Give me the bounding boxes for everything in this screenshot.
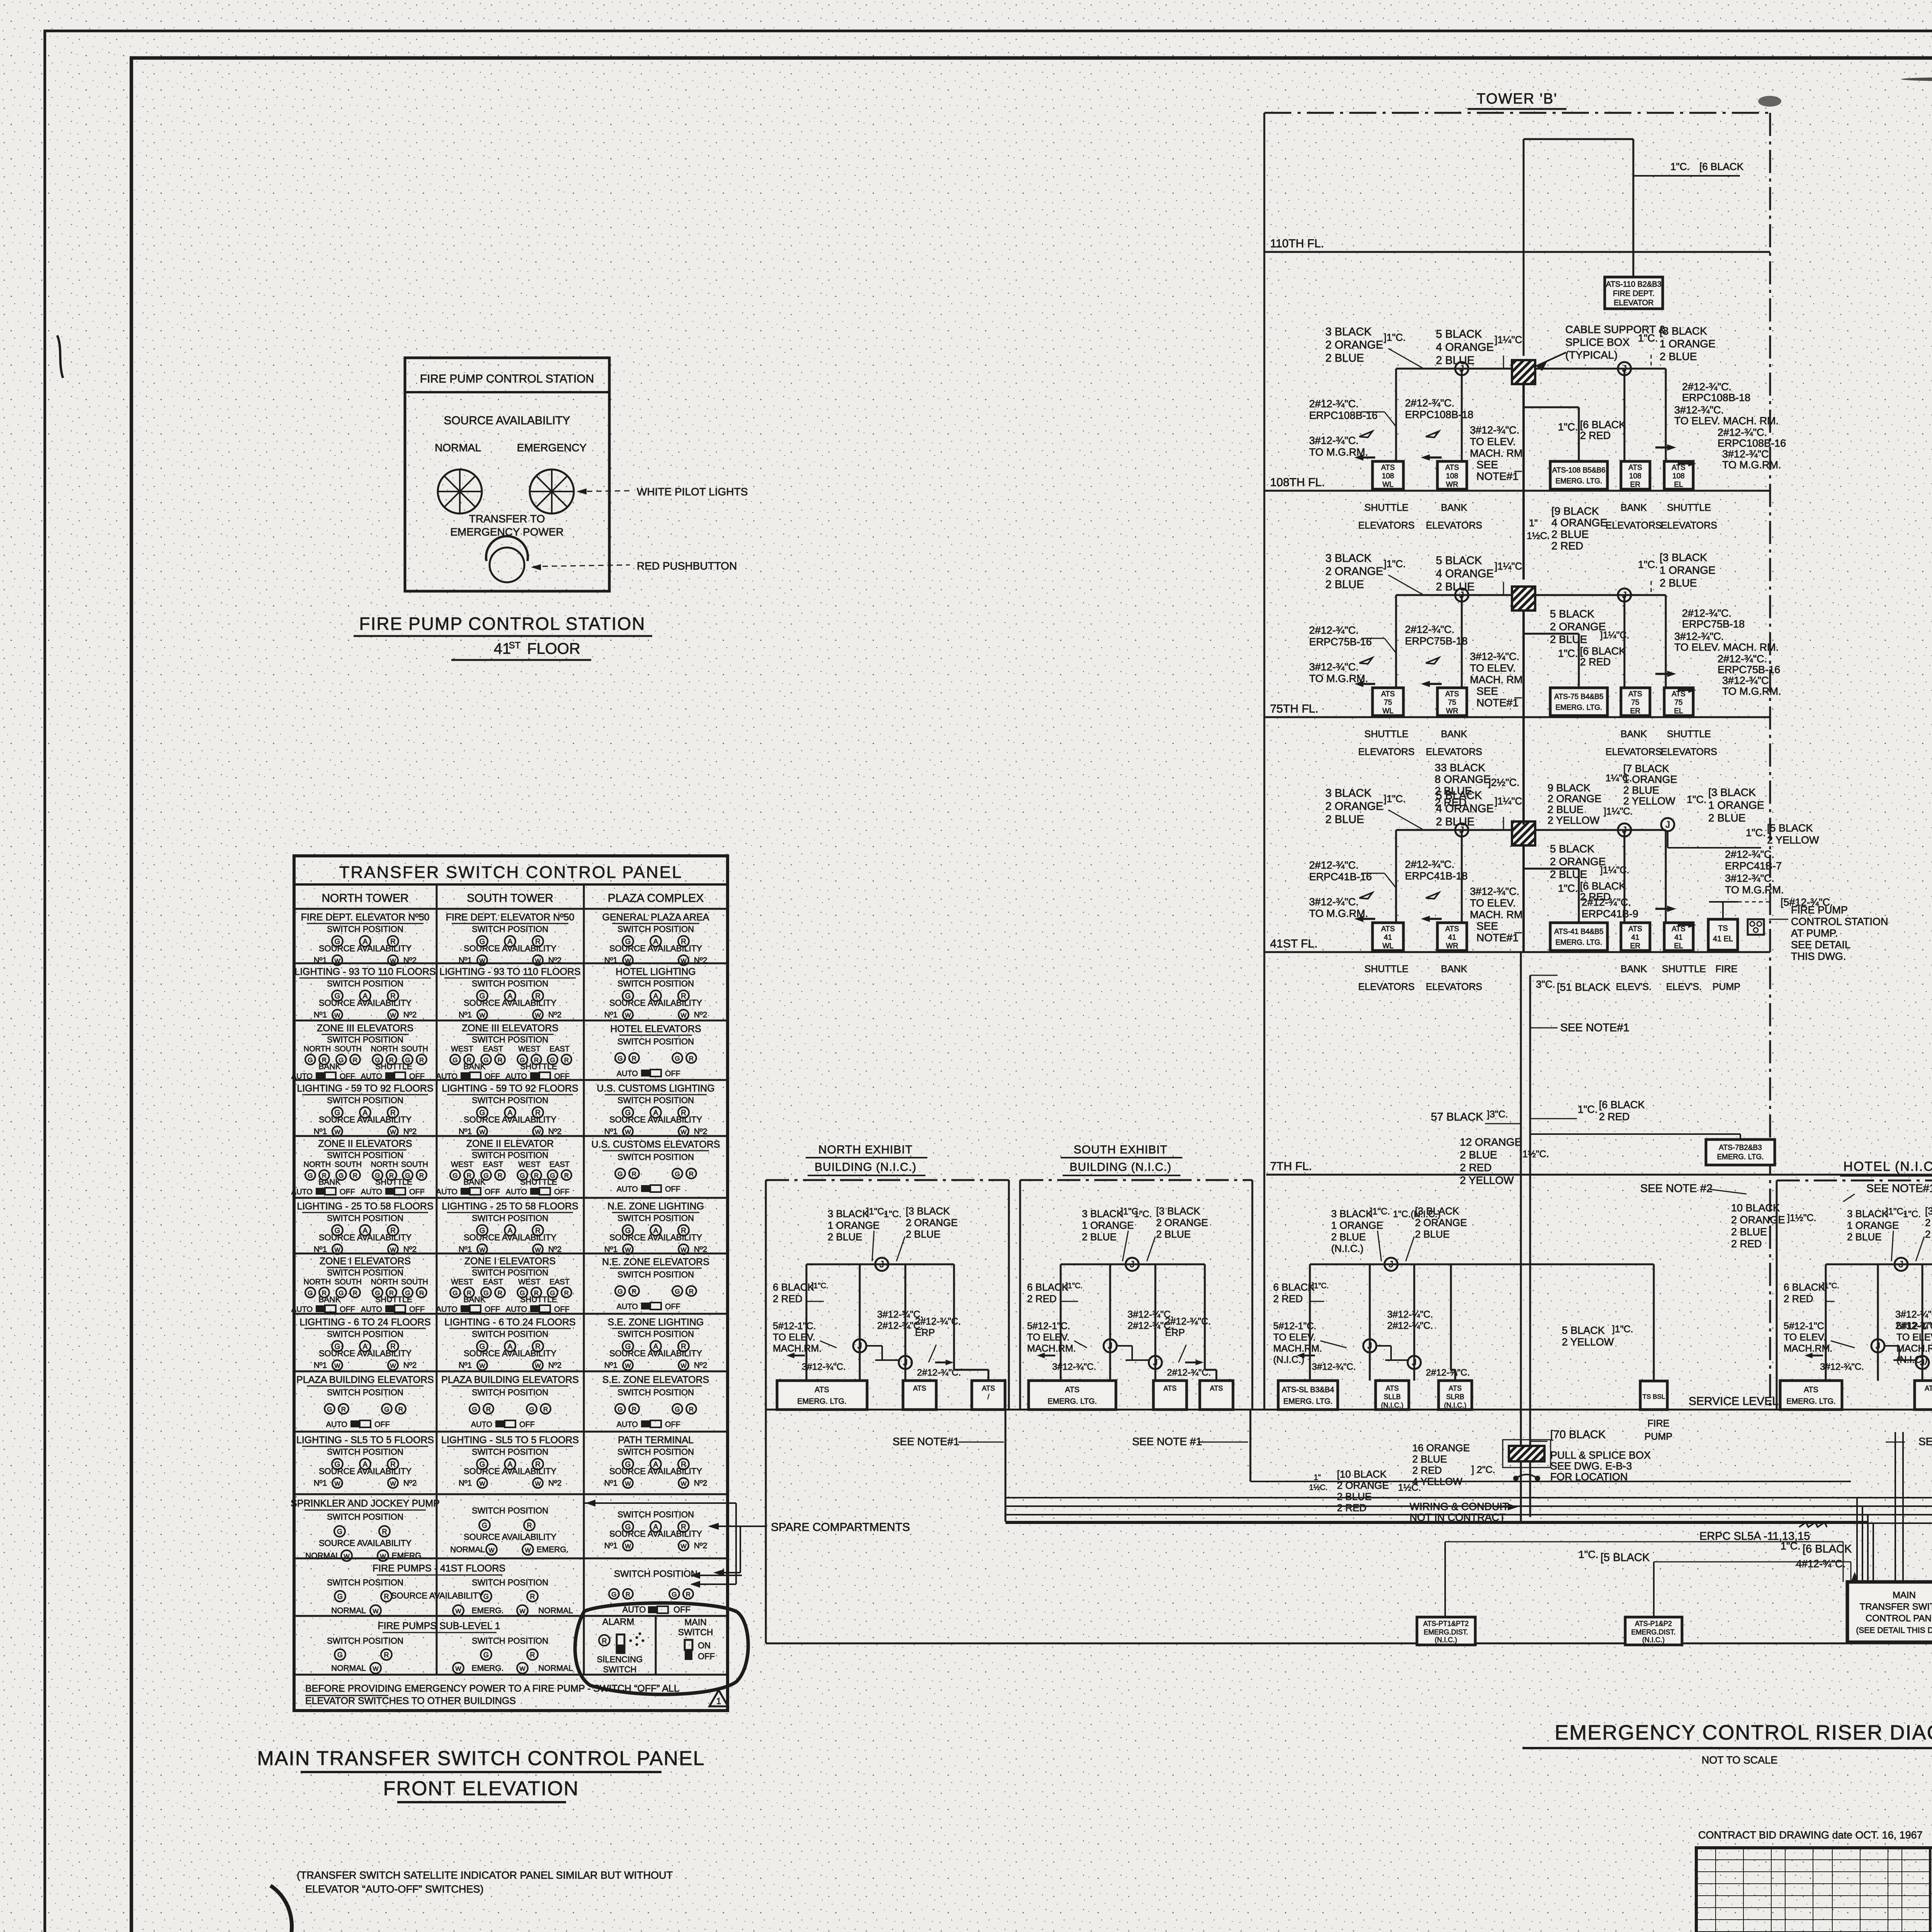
svg-text:SWITCH POSITION: SWITCH POSITION [617, 1510, 694, 1519]
svg-text:5 BLACK: 5 BLACK [1550, 843, 1594, 855]
svg-text:G: G [472, 1406, 477, 1413]
svg-text:R: R [689, 1288, 694, 1295]
svg-text:CONTRACT BID DRAWING: CONTRACT BID DRAWING date OCT. 16, 1967 [1698, 1829, 1923, 1841]
svg-text:ERPC108B-16: ERPC108B-16 [1718, 437, 1786, 449]
svg-text:NOTE#1: NOTE#1 [1476, 697, 1519, 709]
svg-text:Nº2: Nº2 [403, 1127, 417, 1136]
svg-text:W: W [535, 1363, 541, 1369]
svg-text:SOURCE AVAILABILITY: SOURCE AVAILABILITY [609, 1529, 702, 1539]
svg-text:[5 BLACK: [5 BLACK [1600, 1551, 1650, 1564]
svg-text:AUTO: AUTO [361, 1305, 382, 1314]
svg-text:SOURCE AVAILABILITY: SOURCE AVAILABILITY [609, 1349, 702, 1358]
wire drop to box [1395, 830, 1397, 923]
svg-text:2 BLUE: 2 BLUE [1412, 1453, 1447, 1465]
svg-text:G: G [675, 1406, 680, 1413]
leader red pushbutton [533, 565, 630, 566]
svg-text:FLOOR: FLOOR [527, 640, 580, 657]
svg-text:Nº2: Nº2 [548, 1361, 562, 1370]
svg-text:[10 BLACK: [10 BLACK [1337, 1468, 1387, 1480]
svg-text:ATS-P1&P2: ATS-P1&P2 [1635, 1620, 1672, 1628]
svg-text:G: G [452, 1056, 457, 1064]
svg-text:LIGHTING - 6 TO 24 FLOORS: LIGHTING - 6 TO 24 FLOORS [444, 1317, 575, 1328]
svg-text:R: R [686, 1591, 690, 1598]
svg-text:EMERG. LTG.: EMERG. LTG. [1283, 1397, 1332, 1406]
svg-text:ATS: ATS [1628, 690, 1642, 698]
svg-text:MACH.RM.: MACH.RM. [773, 1343, 821, 1354]
svg-text:G: G [482, 1522, 487, 1529]
svg-text:3#12-¾"C.: 3#12-¾"C. [1387, 1309, 1433, 1320]
svg-text:[3 BLACK: [3 BLACK [1660, 325, 1707, 337]
svg-text:LIGHTING - 25 TO 58 FLOORS: LIGHTING - 25 TO 58 FLOORS [442, 1201, 578, 1212]
svg-text:3 BLACK: 3 BLACK [1331, 1208, 1373, 1219]
junction J top [1895, 1258, 1908, 1271]
svg-text:ZONE II ELEVATORS: ZONE II ELEVATORS [318, 1138, 412, 1149]
svg-text:Nº2: Nº2 [694, 1010, 707, 1019]
svg-text:G: G [529, 1406, 534, 1413]
svg-text:NORTH: NORTH [304, 1045, 331, 1053]
svg-text:]1"C.: ]1"C. [1312, 1282, 1329, 1290]
svg-text:[6 BLACK: [6 BLACK [1803, 1543, 1852, 1555]
svg-text:]2½"C.: ]2½"C. [1488, 777, 1520, 788]
svg-text:W: W [680, 958, 687, 964]
svg-text:AUTO: AUTO [471, 1420, 492, 1429]
svg-text:W: W [479, 1129, 485, 1136]
svg-text:ERPC41B-9: ERPC41B-9 [1582, 908, 1638, 920]
cross links [1884, 1345, 1899, 1347]
svg-text:EMERG.: EMERG. [472, 1606, 504, 1615]
svg-text:TRANSFER SWITCH: TRANSFER SWITCH [1860, 1602, 1932, 1612]
central riser pair into panel [1895, 1432, 1896, 1582]
svg-text:W: W [334, 1247, 340, 1253]
svg-text:NORTH: NORTH [371, 1160, 398, 1169]
svg-text:W: W [625, 1543, 631, 1550]
sub level 5 line [766, 1643, 1932, 1645]
svg-text:R: R [341, 1406, 346, 1413]
svg-text:41: 41 [1631, 934, 1639, 942]
svg-text:ELEVATORS: ELEVATORS [1358, 747, 1415, 757]
svg-text:Nº2: Nº2 [403, 1361, 417, 1370]
svg-text:AT PUMP.: AT PUMP. [1791, 927, 1838, 939]
svg-text:R: R [384, 1651, 389, 1659]
feeder arrows [1354, 681, 1375, 687]
svg-text:41: 41 [1384, 934, 1392, 942]
svg-text:SWITCH POSITION: SWITCH POSITION [617, 979, 694, 988]
inner drop wires [1825, 1264, 1827, 1381]
ATS box ATS-41 B4&B5 41 [1550, 923, 1607, 951]
svg-text:10 BLACK: 10 BLACK [1731, 1202, 1780, 1214]
J mid left [1871, 1339, 1884, 1352]
svg-text:R: R [564, 1289, 569, 1297]
svg-text:3#12-¾"C.: 3#12-¾"C. [1312, 1362, 1356, 1372]
svg-text:2 RED: 2 RED [1599, 1111, 1630, 1122]
riser continues [1522, 384, 1525, 491]
svg-text:W: W [680, 1481, 687, 1487]
svg-text:SWITCH: SWITCH [603, 1665, 637, 1674]
emerg ltg feeder [1524, 633, 1579, 635]
cross links [1376, 1345, 1391, 1347]
title block outer [1696, 1848, 1932, 1932]
svg-text:EMERG.: EMERG. [392, 1551, 424, 1560]
svg-text:SHUTTLE: SHUTTLE [1662, 964, 1706, 975]
svg-text:2#12-¾"C.: 2#12-¾"C. [1582, 896, 1631, 908]
svg-text:OFF: OFF [554, 1305, 570, 1314]
svg-text:SEE: SEE [1476, 459, 1498, 471]
svg-text:AUTO: AUTO [291, 1072, 313, 1081]
svg-text:SOURCE AVAILABILITY: SOURCE AVAILABILITY [609, 944, 702, 953]
svg-text:ZONE III ELEVATORS: ZONE III ELEVATORS [317, 1023, 413, 1034]
svg-text:FIRE PUMP: FIRE PUMP [1791, 904, 1848, 916]
svg-text:SWITCH POSITION: SWITCH POSITION [472, 1095, 548, 1105]
svg-text:R: R [602, 1637, 607, 1645]
svg-text:SOURCE AVAILABILITY: SOURCE AVAILABILITY [609, 1466, 702, 1476]
leader arrows from right into sprinkler cells [584, 1502, 736, 1504]
svg-text:RED PUSHBUTTON: RED PUSHBUTTON [637, 560, 737, 572]
svg-text:Nº2: Nº2 [403, 956, 417, 965]
svg-text:W: W [390, 1012, 396, 1019]
svg-text:2#12-¾"C.: 2#12-¾"C. [1682, 381, 1731, 393]
svg-text:MAIN: MAIN [684, 1617, 707, 1627]
spare compartments leader to fire pumps row [740, 1526, 741, 1573]
svg-text:3#12-¾"C.: 3#12-¾"C. [1674, 404, 1724, 416]
svg-text:EMERGENCY: EMERGENCY [517, 442, 587, 454]
svg-text:J: J [1665, 820, 1670, 830]
feeder arrows [1354, 916, 1375, 922]
svg-text:LIGHTING - SL5 TO 5 FLOORS: LIGHTING - SL5 TO 5 FLOORS [296, 1435, 434, 1446]
svg-text:SWITCH POSITION: SWITCH POSITION [472, 1506, 548, 1515]
svg-text:SWITCH POSITION: SWITCH POSITION [614, 1569, 697, 1579]
svg-text:AUTO: AUTO [436, 1188, 457, 1196]
svg-text:EAST: EAST [483, 1278, 503, 1286]
svg-text:[70 BLACK: [70 BLACK [1550, 1429, 1606, 1441]
svg-text:1"C.: 1"C. [1670, 161, 1690, 172]
svg-text:2 BLUE: 2 BLUE [1325, 352, 1364, 364]
svg-text:SEE NOTE#1: SEE NOTE#1 [1866, 1182, 1932, 1195]
svg-text:WR: WR [1446, 481, 1458, 489]
svg-text:SOURCE AVAILABILITY: SOURCE AVAILABILITY [391, 1591, 484, 1600]
svg-text:MAIN: MAIN [1893, 1590, 1916, 1600]
svg-text:ST: ST [509, 640, 521, 651]
svg-text:WR: WR [1446, 707, 1458, 715]
junction J top [1384, 1258, 1398, 1271]
svg-text:[6 BLACK: [6 BLACK [1599, 1099, 1645, 1111]
svg-text:SWITCH POSITION: SWITCH POSITION [472, 1636, 548, 1646]
cross links [866, 1345, 882, 1347]
svg-text:Nº2: Nº2 [403, 1010, 417, 1019]
pilot light normal (crossed circle) [438, 469, 482, 514]
svg-text:SWITCH POSITION: SWITCH POSITION [472, 924, 548, 934]
svg-text:33 BLACK: 33 BLACK [1435, 762, 1485, 774]
svg-text:SHUTTLE: SHUTTLE [520, 1062, 557, 1071]
svg-text:]3"C.: ]3"C. [1487, 1109, 1508, 1120]
svg-text:WEST: WEST [518, 1045, 541, 1053]
svg-text:AUTO: AUTO [506, 1072, 527, 1081]
svg-text:108: 108 [1382, 472, 1394, 480]
svg-text:OFF: OFF [698, 1651, 715, 1661]
svg-text:ELEVATORS: ELEVATORS [1661, 520, 1717, 531]
svg-text:5#12-1"C.: 5#12-1"C. [1896, 1321, 1932, 1332]
ATS box mid [1915, 1381, 1932, 1410]
leader arrow into switch position [692, 1575, 742, 1576]
svg-text:ATS: ATS [1445, 464, 1459, 472]
svg-text:2 BLUE: 2 BLUE [1436, 581, 1475, 593]
svg-text:SHUTTLE: SHUTTLE [375, 1295, 412, 1304]
svg-text:2 RED: 2 RED [1435, 796, 1466, 808]
svg-text:1: 1 [716, 1696, 721, 1706]
svg-text:2 BLUE: 2 BLUE [1460, 1149, 1497, 1161]
svg-text:3#12-¾"C.: 3#12-¾"C. [1895, 1309, 1932, 1320]
svg-text:2 RED: 2 RED [1784, 1293, 1813, 1304]
svg-text:W: W [479, 1012, 485, 1019]
svg-text:]1"C.: ]1"C. [1822, 1282, 1839, 1290]
svg-text:G: G [483, 1593, 489, 1600]
svg-text:5#12-1"C.: 5#12-1"C. [1027, 1321, 1070, 1332]
svg-text:G: G [617, 1055, 622, 1062]
svg-text:3#12-¾"C.: 3#12-¾"C. [1820, 1362, 1864, 1372]
svg-text:TO M.G.RM.: TO M.G.RM. [1725, 884, 1784, 896]
svg-text:5 BLACK: 5 BLACK [1562, 1325, 1605, 1336]
svg-text:ERP: ERP [1165, 1327, 1185, 1338]
svg-text:75: 75 [1674, 699, 1682, 707]
svg-text:6 BLACK: 6 BLACK [1784, 1281, 1825, 1293]
ATS box WL 108 [1372, 461, 1403, 489]
svg-text:75: 75 [1631, 699, 1639, 707]
svg-text:R: R [384, 1593, 389, 1600]
svg-text:1½C.: 1½C. [1527, 531, 1550, 541]
svg-text:PLAZA BUILDING ELEVATORS: PLAZA BUILDING ELEVATORS [441, 1374, 579, 1385]
svg-text:SWITCH POSITION: SWITCH POSITION [617, 924, 694, 934]
feeder arrows [1354, 454, 1375, 461]
svg-text:1"C.: 1"C. [1638, 332, 1658, 344]
svg-text:TO ELEV.: TO ELEV. [1470, 436, 1516, 447]
svg-text:W: W [680, 1363, 687, 1369]
svg-text:BANK: BANK [463, 1295, 485, 1304]
svg-text:2 BLUE: 2 BLUE [1156, 1228, 1191, 1240]
svg-text:ATS: ATS [1672, 925, 1685, 933]
svg-text:Nº1: Nº1 [459, 1127, 472, 1136]
svg-text:2 RED: 2 RED [773, 1293, 803, 1304]
svg-text:]1½"C.: ]1½"C. [1787, 1213, 1816, 1223]
wire drop to box [1395, 369, 1397, 461]
svg-text:W: W [344, 1553, 350, 1560]
ATS box EL 108 [1664, 461, 1693, 489]
svg-text:R: R [419, 1172, 424, 1179]
svg-text:3 BLACK: 3 BLACK [828, 1208, 869, 1219]
svg-text:]1"C.: ]1"C. [811, 1282, 828, 1290]
svg-text:NOT TO SCALE: NOT TO SCALE [1702, 1754, 1778, 1766]
svg-text:Nº1: Nº1 [604, 1479, 618, 1488]
svg-text:]1¼"C.: ]1¼"C. [1600, 865, 1629, 876]
svg-text:SEE DWG. E-B-3: SEE DWG. E-B-3 [1550, 1460, 1632, 1472]
alarm / main switch cells [655, 1616, 657, 1675]
wire TS box to J [1722, 902, 1724, 919]
svg-text:BANK: BANK [463, 1062, 485, 1071]
svg-text:2 BLUE: 2 BLUE [1660, 350, 1697, 362]
svg-text:J: J [1389, 1259, 1393, 1270]
svg-text:1 ORANGE: 1 ORANGE [1331, 1219, 1383, 1231]
svg-text:R: R [564, 1056, 569, 1064]
svg-text:W: W [625, 958, 631, 964]
svg-text:3#12-¾"C.: 3#12-¾"C. [1674, 631, 1724, 642]
svg-text:S.E. ZONE ELEVATORS: S.E. ZONE ELEVATORS [602, 1374, 709, 1385]
svg-text:]1¼"C.: ]1¼"C. [1604, 806, 1633, 817]
svg-text:SERVICE LEVEL: SERVICE LEVEL [1689, 1395, 1779, 1408]
svg-text:Nº1: Nº1 [314, 1361, 327, 1370]
svg-text:W: W [535, 1012, 541, 1019]
svg-text:ATS: ATS [1628, 925, 1642, 933]
svg-text:1 ORANGE: 1 ORANGE [1660, 564, 1716, 576]
svg-text:ATS: ATS [1445, 690, 1459, 698]
svg-text:2 RED: 2 RED [1027, 1293, 1057, 1304]
svg-text:WEST: WEST [518, 1160, 541, 1169]
svg-text:3#12-¾"C.: 3#12-¾"C. [802, 1362, 846, 1372]
svg-text:3#12-¾"C.: 3#12-¾"C. [1470, 651, 1519, 662]
svg-text:MAIN TRANSFER SWITCH CONTRO: MAIN TRANSFER SWITCH CONTROL PANEL [257, 1747, 705, 1770]
svg-text:SWITCH POSITION: SWITCH POSITION [327, 1213, 403, 1223]
svg-text:[3 BLACK: [3 BLACK [906, 1205, 950, 1217]
svg-text:NOTE#1: NOTE#1 [1476, 470, 1519, 482]
pen scribble bottom left [266, 1886, 292, 1932]
svg-text:SWITCH POSITION: SWITCH POSITION [327, 1268, 403, 1277]
J mid right [1916, 1356, 1929, 1369]
svg-text:WR: WR [1446, 942, 1458, 950]
svg-text:Nº2: Nº2 [548, 956, 562, 965]
svg-text:MACH. RM.: MACH. RM. [1470, 447, 1526, 459]
svg-text:[3 BLACK: [3 BLACK [1660, 551, 1707, 563]
ATS box ER 75 [1621, 688, 1650, 716]
svg-text:G: G [675, 1055, 680, 1062]
svg-text:G: G [675, 1288, 680, 1295]
svg-text:MACH.RM.: MACH.RM. [1027, 1343, 1076, 1354]
svg-text:SOURCE AVAILABILITY: SOURCE AVAILABILITY [609, 1115, 702, 1124]
svg-text:R: R [564, 1172, 569, 1179]
ATS box WL 41 [1372, 923, 1403, 951]
svg-text:3#12-¾"C.: 3#12-¾"C. [1722, 675, 1772, 686]
svg-text:[6 BLACK: [6 BLACK [1580, 645, 1626, 657]
svg-text:1"C.: 1"C. [1638, 559, 1658, 570]
svg-text:(TRANSFER SWITCH SATELLITE: (TRANSFER SWITCH SATELLITE INDICATOR PAN… [297, 1869, 673, 1881]
svg-text:NORMAL: NORMAL [331, 1606, 366, 1615]
svg-text:1 ORANGE: 1 ORANGE [1660, 338, 1716, 350]
svg-text:R: R [632, 1288, 636, 1295]
svg-text:]1½"C.: ]1½"C. [1520, 1149, 1549, 1160]
svg-text:R: R [498, 1289, 502, 1297]
svg-text:2 YELLOW: 2 YELLOW [1460, 1174, 1514, 1186]
svg-text:3#12-¾"C.: 3#12-¾"C. [1052, 1362, 1096, 1372]
svg-text:WEST: WEST [451, 1160, 473, 1169]
7th floor line [1266, 1174, 1932, 1176]
svg-text:W: W [680, 1129, 687, 1136]
svg-text:SOURCE AVAILABILITY: SOURCE AVAILABILITY [319, 1538, 412, 1548]
svg-text:OFF: OFF [519, 1420, 535, 1429]
svg-text:EMERGENCY CONTROL RISER: EMERGENCY CONTROL RISER DIAGRAM [1554, 1721, 1932, 1744]
svg-text:NORMAL: NORMAL [538, 1664, 573, 1673]
svg-text:[3 BLACK: [3 BLACK [1156, 1205, 1201, 1217]
svg-text:SOUTH: SOUTH [335, 1045, 362, 1053]
svg-text:SOURCE AVAILABILITY: SOURCE AVAILABILITY [319, 1115, 412, 1124]
svg-text:BANK: BANK [1441, 964, 1467, 975]
svg-text:Nº2: Nº2 [548, 1010, 562, 1019]
left drops into main panel [1856, 1498, 1858, 1582]
svg-text:OFF: OFF [485, 1072, 500, 1081]
svg-text:EMERG.DIST.: EMERG.DIST. [1631, 1628, 1675, 1636]
TS 41 EL fire pump box [1708, 919, 1738, 950]
svg-text:1"C.: 1"C. [1903, 1209, 1921, 1219]
wire drop to box [1461, 830, 1463, 923]
svg-text:W: W [334, 1363, 340, 1369]
svg-text:TO ELEV.: TO ELEV. [1470, 897, 1516, 909]
svg-text:ATS: ATS [1672, 464, 1685, 472]
svg-text:(N.I.C.): (N.I.C.) [1331, 1243, 1364, 1254]
svg-text:EMERG.: EMERG. [472, 1664, 504, 1673]
svg-text:EMERG. LTG.: EMERG. LTG. [1717, 1153, 1764, 1161]
ATS box ER 108 [1621, 461, 1650, 489]
svg-text:SHUTTLE: SHUTTLE [375, 1178, 412, 1187]
svg-text:Nº2: Nº2 [694, 1245, 707, 1254]
svg-text:NORMAL: NORMAL [331, 1664, 366, 1673]
svg-text:U.S. CUSTOMS ELEVATORS: U.S. CUSTOMS ELEVATORS [592, 1139, 720, 1150]
cable support & splice box [1512, 360, 1535, 384]
svg-text:ATS: ATS [1163, 1384, 1177, 1392]
svg-text:2#12-¾"C.: 2#12-¾"C. [1309, 398, 1359, 410]
svg-text:NORTH EXHIBIT: NORTH EXHIBIT [818, 1143, 913, 1156]
wire drop to box [1461, 369, 1463, 461]
svg-text:41: 41 [494, 640, 511, 657]
svg-text:Nº1: Nº1 [604, 1127, 618, 1136]
svg-text:2 RED: 2 RED [1580, 656, 1611, 668]
svg-text:]1"C.: ]1"C. [1384, 332, 1406, 343]
svg-text:75TH FL.: 75TH FL. [1270, 702, 1318, 715]
svg-text:1¼"C.: 1¼"C. [1605, 773, 1632, 784]
svg-text:R: R [419, 1289, 424, 1297]
svg-text:OFF: OFF [485, 1188, 500, 1196]
svg-text:ATS: ATS [1445, 925, 1459, 933]
inner drop wires [1060, 1264, 1062, 1381]
svg-text:5#12-1"C.: 5#12-1"C. [1784, 1321, 1827, 1332]
svg-text:AUTO: AUTO [617, 1420, 638, 1429]
bus line [1826, 1264, 1932, 1265]
svg-text:FOR LOCATION: FOR LOCATION [1550, 1471, 1628, 1483]
svg-text:6 BLACK: 6 BLACK [1027, 1281, 1069, 1293]
svg-text:2#12-¾"C.: 2#12-¾"C. [1725, 849, 1774, 860]
svg-text:R: R [689, 1170, 694, 1178]
svg-text:R: R [498, 1056, 502, 1064]
svg-text:OFF: OFF [673, 1605, 690, 1614]
bus line 41 fl [1396, 829, 1666, 831]
svg-text:3 BLACK: 3 BLACK [1325, 552, 1372, 565]
svg-text:SHUTTLE: SHUTTLE [520, 1178, 557, 1187]
svg-text:BANK: BANK [1621, 502, 1647, 513]
emerg ltg feeder [1524, 406, 1579, 408]
svg-text:2#12-¾"C.: 2#12-¾"C. [1718, 427, 1767, 438]
svg-text:SPLICE BOX: SPLICE BOX [1565, 336, 1630, 348]
svg-text:2 BLUE: 2 BLUE [1082, 1231, 1117, 1243]
J mid right [1408, 1356, 1421, 1369]
svg-text:G: G [675, 1170, 680, 1178]
svg-text:ELEVATOR SWITCHES TO OTHER: ELEVATOR SWITCHES TO OTHER BUILDINGS [305, 1696, 516, 1706]
svg-text:2 BLUE: 2 BLUE [1325, 578, 1364, 591]
svg-text:SWITCH POSITION: SWITCH POSITION [472, 1035, 548, 1044]
svg-text:W: W [519, 1666, 526, 1672]
svg-text:ERPC75B-18: ERPC75B-18 [1405, 635, 1468, 647]
svg-text:2 BLUE: 2 BLUE [1623, 784, 1659, 796]
svg-text:Nº2: Nº2 [403, 1479, 417, 1488]
svg-text:ERP: ERP [915, 1327, 935, 1338]
junction J right [1618, 588, 1631, 602]
svg-text:MACH. RM.: MACH. RM. [1470, 909, 1526, 920]
cable support & splice box [1512, 587, 1535, 611]
svg-text:75: 75 [1448, 699, 1456, 707]
svg-text:41: 41 [1674, 934, 1682, 942]
